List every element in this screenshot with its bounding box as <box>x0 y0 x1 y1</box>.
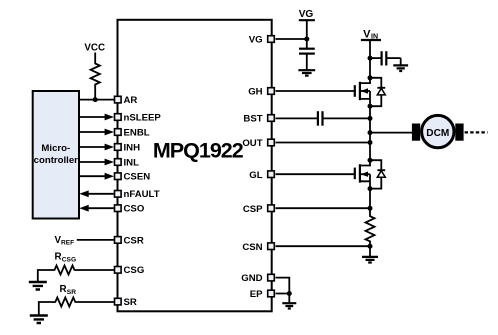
svg-text:R: R <box>55 251 62 262</box>
svg-text:ENBL: ENBL <box>124 127 150 138</box>
pin ENBL <box>115 127 150 138</box>
wire INL arrow <box>79 159 114 166</box>
svg-text:GND: GND <box>241 273 262 284</box>
svg-text:GL: GL <box>249 170 262 181</box>
wire Q2 source to CSP <box>369 189 371 209</box>
capacitor BST bootstrap <box>318 111 323 126</box>
svg-text:MPQ1922: MPQ1922 <box>153 138 244 162</box>
svg-text:nFAULT: nFAULT <box>124 189 160 200</box>
svg-text:nSLEEP: nSLEEP <box>124 112 162 123</box>
wire VIN node to Q1 drain <box>369 58 371 78</box>
svg-text:SR: SR <box>124 297 137 308</box>
wire AR <box>79 99 115 101</box>
motor DCM <box>412 115 464 147</box>
diode Q2 body <box>370 160 385 188</box>
diode Q1 body <box>370 78 385 106</box>
node Q1 drain/diode <box>368 75 373 80</box>
capacitor VG bypass <box>299 39 315 70</box>
resistor sense R <box>366 208 375 246</box>
ground VIN cap <box>393 65 408 71</box>
ground VG cap <box>298 70 315 75</box>
ground sense <box>362 246 378 262</box>
pin EP <box>250 289 275 300</box>
wire GND to EP node <box>276 278 290 294</box>
VG rail label <box>299 9 315 20</box>
pin CSEN <box>115 172 151 183</box>
wire GL to Q2 gate <box>276 173 355 175</box>
wire OUT to switch node <box>276 142 371 144</box>
svg-text:CSEN: CSEN <box>124 172 151 183</box>
wire to motor <box>370 132 413 134</box>
node CSP junction <box>368 206 373 211</box>
svg-text:VG: VG <box>249 35 263 46</box>
wire nSLEEP arrow <box>79 114 114 121</box>
node VG junction <box>304 37 309 42</box>
transistor Q2 low-side NMOS <box>355 160 370 188</box>
svg-text:CSG: CSG <box>62 256 76 263</box>
pin nFAULT <box>115 189 160 200</box>
pin VG <box>249 35 275 46</box>
svg-text:DCM: DCM <box>426 128 449 139</box>
pin CSN <box>242 242 274 253</box>
wire CSO arrow to MCU <box>79 205 114 212</box>
node Q1 source/diode <box>368 104 373 109</box>
svg-text:R: R <box>60 284 67 295</box>
wire VG rail down <box>306 20 308 39</box>
capacitor VIN bypass <box>370 51 401 65</box>
svg-text:VG: VG <box>299 9 314 20</box>
pin GND <box>241 273 274 284</box>
transistor Q1 high-side NMOS <box>355 78 370 106</box>
wire switch node vertical <box>369 106 371 160</box>
svg-text:AR: AR <box>124 95 138 106</box>
pin INL <box>115 157 140 168</box>
wire VG pin to cap <box>276 38 307 40</box>
pin CSG <box>115 265 145 276</box>
pin BST <box>243 114 274 125</box>
svg-text:BST: BST <box>243 114 262 125</box>
IC U1 MPQ1922 body <box>118 20 272 312</box>
svg-text:CSO: CSO <box>124 204 145 215</box>
resistor RSR label <box>60 284 77 296</box>
wire VIN rail down <box>369 40 371 58</box>
wire CSEN arrow <box>79 173 114 180</box>
wire GH to Q1 gate <box>276 90 355 92</box>
pin OUT <box>242 138 274 149</box>
wire CSN <box>276 245 371 247</box>
svg-text:VCC: VCC <box>84 42 105 53</box>
pin AR <box>115 95 138 106</box>
ground RCSG <box>29 282 47 290</box>
wire VREF to CSR <box>77 239 115 241</box>
pin nSLEEP <box>115 112 162 123</box>
svg-text:controller: controller <box>34 155 79 166</box>
wire INH arrow <box>79 144 114 151</box>
wire CSG left + resistor RCSG <box>38 266 115 283</box>
svg-text:CSG: CSG <box>124 265 145 276</box>
wire motor dashed stub <box>465 131 488 133</box>
node VCC/AR junction <box>93 97 98 102</box>
pin CSO <box>115 204 145 215</box>
svg-text:EP: EP <box>250 289 263 300</box>
wire ENBL arrow <box>79 129 114 136</box>
svg-text:INL: INL <box>124 157 140 168</box>
resistor RCSG label <box>55 251 77 263</box>
svg-text:CSR: CSR <box>124 235 144 246</box>
svg-text:REF: REF <box>61 239 74 246</box>
VREF label <box>55 235 75 246</box>
svg-text:Micro-: Micro- <box>41 143 70 154</box>
svg-text:CSN: CSN <box>242 242 262 253</box>
node CSN junction <box>368 244 373 249</box>
wire nFAULT arrow to MCU <box>79 190 114 197</box>
pin GL <box>249 170 274 181</box>
wire EP <box>276 293 290 295</box>
node GND/EP junction <box>287 291 292 296</box>
svg-text:INH: INH <box>124 142 141 153</box>
wire BST cap to switch node <box>323 117 371 119</box>
node BST junction <box>368 116 373 121</box>
pin INH <box>115 142 141 153</box>
node Q2 source/diode <box>368 186 373 191</box>
pin GH <box>248 87 274 98</box>
svg-text:OUT: OUT <box>242 138 262 149</box>
pin CSP <box>243 204 274 215</box>
VIN rail label <box>361 28 381 40</box>
pin SR <box>115 297 137 308</box>
svg-text:GH: GH <box>248 87 262 98</box>
node motor junction <box>368 130 373 135</box>
node Q2 drain/diode <box>368 158 373 163</box>
wire BST to cap <box>276 117 318 119</box>
svg-text:V: V <box>363 28 371 40</box>
wire CSP <box>276 207 371 209</box>
microcontroller block <box>33 91 79 219</box>
wire SR left + resistor RSR <box>39 298 115 316</box>
node VIN junction <box>368 56 373 61</box>
resistor VCC pull-up <box>91 53 100 100</box>
svg-text:CSP: CSP <box>243 204 263 215</box>
ground RSR <box>30 316 48 324</box>
pin CSR <box>115 235 144 246</box>
svg-text:SR: SR <box>67 289 76 296</box>
ground GND/EP <box>282 294 296 309</box>
node OUT junction <box>368 140 373 145</box>
VCC label <box>84 42 105 53</box>
